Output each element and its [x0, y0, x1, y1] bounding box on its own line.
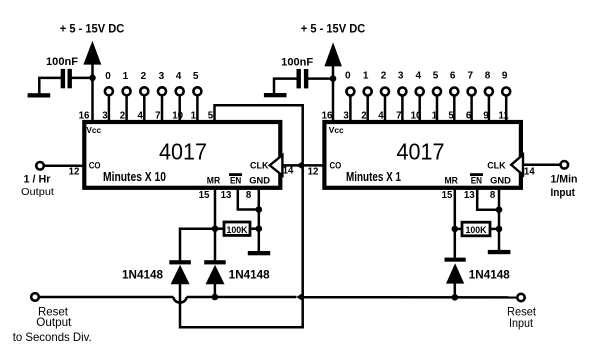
svg-text:16: 16	[322, 110, 333, 121]
svg-text:8: 8	[246, 190, 252, 201]
wire MR junction left and down to D1 cathode	[180, 229, 215, 261]
svg-text:7: 7	[155, 110, 160, 121]
svg-text:100K: 100K	[466, 225, 487, 236]
svg-text:to Seconds Div.: to Seconds Div.	[13, 330, 92, 344]
wire U2 MR pin 15 down to diode D3 cathode	[454, 187, 457, 259]
svg-text:MR: MR	[445, 176, 459, 186]
capacitor C1 plates	[61, 69, 72, 88]
svg-text:11: 11	[498, 110, 509, 121]
svg-text:2: 2	[381, 71, 387, 82]
svg-text:12: 12	[69, 167, 80, 178]
output terminals 0-5 of U1	[105, 87, 201, 121]
svg-text:16: 16	[79, 110, 90, 121]
svg-text:12: 12	[308, 167, 319, 178]
label 1/Hr Output	[21, 174, 54, 198]
terminal: Reset Output	[31, 293, 39, 301]
output terminals 0-9 of U2	[346, 88, 510, 122]
svg-text:9: 9	[483, 110, 489, 121]
node: U1 EN/GND junction	[255, 206, 262, 213]
ground symbol (U1 pin 8)	[248, 251, 270, 255]
arrowhead on clock wire (points left)	[296, 162, 301, 169]
svg-text:100nF: 100nF	[281, 56, 313, 68]
svg-text:0: 0	[345, 71, 351, 82]
diode D1 1N4148 (Q6 to MR)	[169, 260, 191, 284]
svg-text:4017: 4017	[159, 139, 207, 165]
svg-text:Vcc: Vcc	[86, 125, 101, 135]
svg-text:Vcc: Vcc	[329, 125, 344, 135]
svg-text:15: 15	[199, 190, 210, 201]
wire CO U2 pin 12 to CLK U1 pin 14	[282, 164, 323, 167]
clock input notch U1	[270, 155, 283, 175]
node: right Vcc junction	[330, 75, 337, 82]
pin numbers top row U2	[322, 110, 510, 121]
node: left Vcc junction	[89, 75, 96, 82]
terminal: 1/Min Input	[561, 161, 569, 169]
svg-text:Minutes X 1: Minutes X 1	[346, 170, 401, 184]
svg-text:CO: CO	[89, 161, 101, 171]
svg-text:Input: Input	[550, 187, 575, 199]
svg-text:CLK: CLK	[487, 161, 506, 171]
svg-text:14: 14	[283, 166, 294, 177]
wire U2 GND pin 8 down to ground	[498, 187, 501, 250]
svg-text:5: 5	[208, 110, 214, 121]
svg-text:100nF: 100nF	[46, 56, 78, 68]
svg-text:10: 10	[172, 110, 183, 121]
resistor R2 100K (U2 MR pulldown)	[455, 222, 499, 236]
node: U2 GND / R2 junction	[496, 226, 503, 233]
svg-text:3: 3	[102, 110, 108, 121]
wire C2 right lead to Vcc junction	[308, 77, 334, 80]
output digits 0-5 of U1	[105, 71, 199, 82]
wire U1 EN pin 13 to GND pin 8	[238, 187, 259, 210]
svg-text:13: 13	[464, 190, 475, 201]
power arrow symbol (right supply)	[324, 42, 342, 66]
svg-text:4: 4	[176, 71, 182, 82]
svg-text:1: 1	[191, 110, 197, 121]
svg-text:1 / Hr: 1 / Hr	[24, 174, 52, 186]
pin labels 15 13 8 under U1	[199, 190, 252, 201]
svg-text:1N4148: 1N4148	[469, 270, 511, 282]
svg-text:10: 10	[411, 110, 422, 121]
wire Vcc rail right (pin 16)	[332, 64, 335, 122]
svg-text:EN: EN	[471, 176, 482, 186]
terminal: 1/Hr Output	[36, 162, 44, 170]
arrowhead on reset bus (points left)	[296, 294, 301, 301]
svg-text:9: 9	[502, 71, 508, 82]
svg-text:3: 3	[343, 110, 349, 121]
wire U2 EN pin 13 to GND pin 8	[477, 187, 499, 210]
pin labels 15 13 8 under U2	[442, 190, 496, 201]
svg-text:1/Min: 1/Min	[551, 174, 578, 186]
svg-text:3: 3	[159, 71, 165, 82]
node: U1 GND / R1 junction	[255, 225, 262, 232]
IC U2 4017 (Minutes X 1) box	[324, 122, 521, 188]
svg-text:8: 8	[490, 190, 496, 201]
wire reset bus: crossing to Reset Input terminal	[304, 296, 517, 299]
clock input notch U2	[511, 155, 523, 175]
svg-text:Input: Input	[509, 318, 534, 330]
wire CO U1 pin 12 to 1/Hr terminal	[45, 165, 83, 168]
svg-text:7: 7	[468, 71, 474, 82]
svg-text:0: 0	[105, 71, 111, 82]
svg-text:1N4148: 1N4148	[229, 270, 271, 282]
svg-text:GND: GND	[249, 176, 270, 186]
svg-text:4: 4	[378, 110, 384, 121]
wire U1 pin 5 (Q6) up-over-down to divide-by-6 reset	[180, 105, 303, 327]
svg-text:100K: 100K	[227, 225, 248, 236]
svg-text:6: 6	[450, 71, 456, 82]
svg-text:EN: EN	[230, 176, 241, 186]
output digits 0-9 of U2	[345, 71, 508, 82]
node: U2 MR / R2 junction	[452, 226, 459, 233]
wire C1 right lead to Vcc junction	[71, 77, 93, 80]
wire U1 MR pin 15 down to diode D2 cathode	[214, 187, 217, 261]
wire CLK U2 pin 14 to 1/Min terminal	[523, 164, 560, 167]
svg-text:6: 6	[466, 110, 472, 121]
wire reset bus: hop to Q6 crossing	[187, 296, 297, 299]
svg-text:4017: 4017	[397, 139, 445, 165]
node: U2 EN/GND junction	[496, 206, 503, 213]
label Reset Input	[507, 306, 537, 330]
svg-text:Minutes X 10: Minutes X 10	[103, 170, 166, 184]
svg-text:1N4148: 1N4148	[122, 270, 164, 282]
node: D3 anode on reset bus	[452, 294, 459, 301]
svg-text:1: 1	[432, 110, 438, 121]
ground symbol (C1)	[28, 93, 51, 97]
capacitor C2 plates	[297, 69, 309, 88]
svg-text:8: 8	[485, 71, 491, 82]
svg-text:14: 14	[524, 166, 535, 177]
wire C1 left lead to ground	[39, 78, 61, 94]
IC U1 4017 (Minutes X 10) box	[84, 122, 280, 188]
label 1/Min Input	[550, 174, 577, 199]
power arrow symbol (left supply)	[83, 41, 101, 65]
svg-text:4: 4	[416, 71, 422, 82]
svg-text:3: 3	[398, 71, 404, 82]
wire hop over D1 anode	[174, 297, 187, 303]
pin numbers top row U1	[79, 110, 214, 121]
svg-text:5: 5	[193, 71, 199, 82]
svg-text:Output: Output	[21, 187, 54, 198]
label Reset Output to Seconds Div.	[13, 306, 92, 344]
diode D2 1N4148 (reset bus to U1 MR)	[204, 260, 226, 297]
ground symbol (C2)	[264, 93, 287, 97]
node: U1 MR / R1 / D1 junction	[212, 225, 219, 232]
svg-text:2: 2	[361, 110, 366, 121]
svg-text:+ 5 - 15V DC: + 5 - 15V DC	[301, 22, 366, 36]
svg-text:5: 5	[433, 71, 439, 82]
svg-text:CO: CO	[330, 161, 342, 171]
ground symbol (U2 pin 8)	[488, 250, 511, 254]
wire reset bus: terminal to hop	[40, 296, 174, 299]
svg-text:1: 1	[123, 71, 129, 82]
svg-text:MR: MR	[207, 176, 221, 186]
svg-text:5: 5	[448, 110, 454, 121]
wire Vcc rail left (pin 16)	[91, 63, 94, 122]
resistor R1 100K (U1 MR pulldown)	[215, 222, 259, 236]
svg-text:+ 5 - 15V DC: + 5 - 15V DC	[60, 22, 125, 36]
wire C2 left lead to ground	[274, 79, 297, 94]
svg-text:2: 2	[141, 71, 147, 82]
svg-text:7: 7	[396, 110, 401, 121]
svg-text:4: 4	[138, 110, 144, 121]
svg-text:13: 13	[221, 190, 232, 201]
svg-text:15: 15	[442, 190, 453, 201]
svg-text:Reset: Reset	[507, 306, 537, 318]
node: D2 anode on reset bus	[212, 294, 219, 301]
svg-text:CLK: CLK	[250, 161, 269, 171]
svg-text:GND: GND	[490, 176, 511, 186]
diode D3 1N4148 (reset bus to U2 MR)	[445, 258, 466, 298]
svg-text:Output: Output	[36, 317, 72, 329]
wire U1 GND pin 8 down to ground	[258, 187, 261, 251]
svg-text:1: 1	[363, 71, 369, 82]
terminal: Reset Input	[517, 294, 524, 301]
svg-text:2: 2	[120, 110, 125, 121]
